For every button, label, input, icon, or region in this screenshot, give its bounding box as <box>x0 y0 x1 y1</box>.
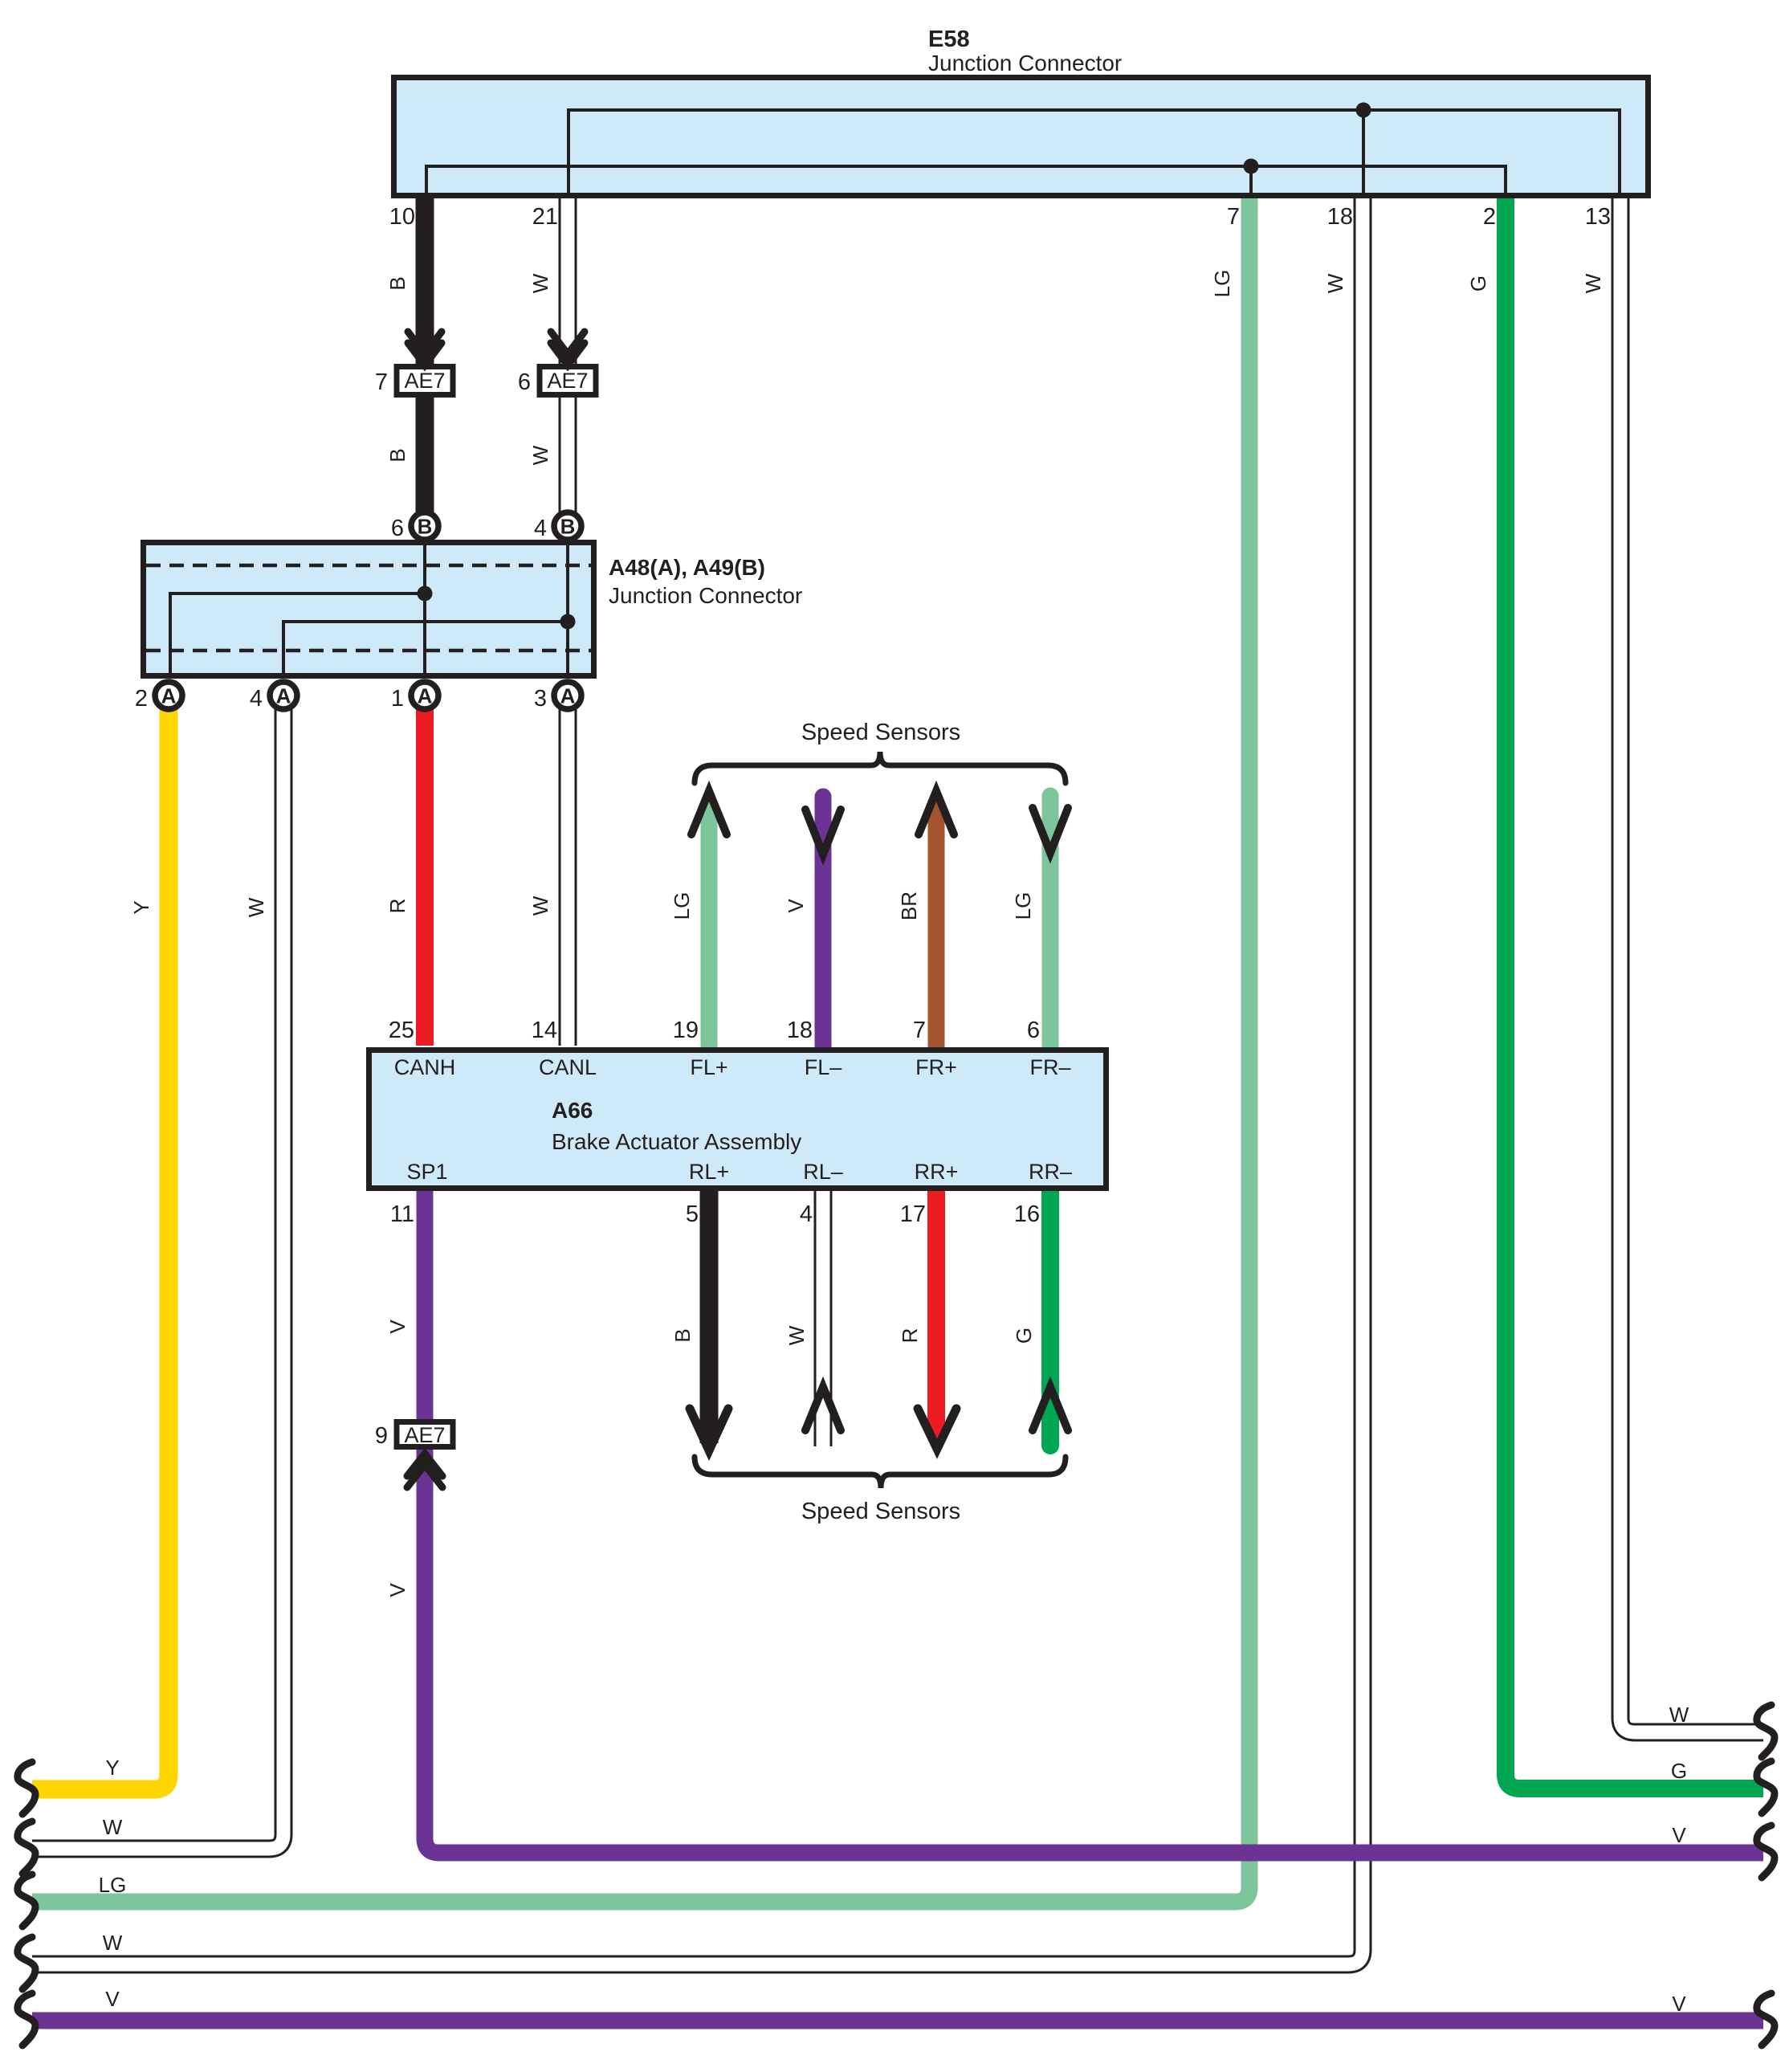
svg-text:W: W <box>528 273 552 293</box>
svg-text:7: 7 <box>1227 204 1240 230</box>
svg-text:FL–: FL– <box>805 1055 842 1079</box>
svg-text:Junction Connector: Junction Connector <box>609 583 802 608</box>
svg-text:B: B <box>385 448 410 462</box>
svg-text:A: A <box>161 684 177 708</box>
svg-text:B: B <box>560 515 576 539</box>
svg-text:W: W <box>103 1931 123 1955</box>
svg-text:Y: Y <box>105 1756 119 1780</box>
svg-text:RR–: RR– <box>1029 1160 1072 1184</box>
svg-text:Speed Sensors: Speed Sensors <box>801 720 960 745</box>
svg-text:14: 14 <box>532 1018 557 1043</box>
svg-text:LG: LG <box>1011 892 1035 920</box>
svg-text:7: 7 <box>913 1018 926 1043</box>
svg-text:17: 17 <box>900 1201 926 1227</box>
svg-text:6: 6 <box>1027 1018 1040 1043</box>
svg-text:13: 13 <box>1585 204 1611 230</box>
svg-text:LG: LG <box>1210 270 1234 298</box>
svg-text:AE7: AE7 <box>404 1423 445 1447</box>
svg-text:W: W <box>1323 273 1347 293</box>
svg-text:V: V <box>385 1319 410 1334</box>
svg-text:A66: A66 <box>552 1098 593 1123</box>
svg-text:AE7: AE7 <box>404 369 445 393</box>
svg-text:SP1: SP1 <box>406 1160 447 1184</box>
svg-text:6: 6 <box>391 516 404 541</box>
svg-text:Junction Connector: Junction Connector <box>928 51 1122 75</box>
svg-text:Y: Y <box>129 900 153 914</box>
svg-text:R: R <box>898 1328 922 1344</box>
svg-text:B: B <box>418 515 433 539</box>
svg-text:FL+: FL+ <box>690 1055 727 1079</box>
svg-text:V: V <box>1672 1992 1686 2016</box>
svg-text:W: W <box>1581 273 1605 293</box>
svg-text:10: 10 <box>389 204 415 230</box>
svg-text:RL+: RL+ <box>689 1160 729 1184</box>
svg-text:W: W <box>244 897 268 917</box>
svg-text:W: W <box>528 445 552 465</box>
svg-text:4: 4 <box>800 1201 813 1227</box>
svg-text:2: 2 <box>1483 204 1496 230</box>
svg-text:7: 7 <box>375 369 388 395</box>
svg-text:18: 18 <box>787 1018 813 1043</box>
svg-text:RL–: RL– <box>803 1160 843 1184</box>
svg-text:FR–: FR– <box>1029 1055 1070 1079</box>
svg-text:6: 6 <box>518 369 531 395</box>
svg-text:B: B <box>670 1328 695 1342</box>
svg-text:CANH: CANH <box>394 1055 456 1079</box>
svg-text:4: 4 <box>534 516 547 541</box>
svg-text:LG: LG <box>670 892 694 920</box>
svg-text:16: 16 <box>1014 1201 1040 1227</box>
svg-text:1: 1 <box>391 686 404 712</box>
svg-text:A: A <box>276 684 291 708</box>
svg-text:21: 21 <box>532 204 558 230</box>
svg-text:V: V <box>385 1583 410 1597</box>
svg-text:W: W <box>1669 1703 1689 1727</box>
svg-text:V: V <box>105 1987 120 2011</box>
svg-text:5: 5 <box>686 1201 699 1227</box>
svg-text:19: 19 <box>673 1018 699 1043</box>
svg-text:A: A <box>418 684 433 708</box>
svg-text:2: 2 <box>135 686 148 712</box>
svg-text:RR+: RR+ <box>915 1160 959 1184</box>
svg-text:Brake Actuator Assembly: Brake Actuator Assembly <box>552 1129 801 1154</box>
svg-text:E58: E58 <box>928 27 970 52</box>
svg-text:G: G <box>1012 1328 1036 1344</box>
svg-text:V: V <box>1672 1823 1686 1847</box>
svg-text:G: G <box>1671 1759 1687 1783</box>
svg-text:BR: BR <box>897 891 921 920</box>
svg-text:R: R <box>385 899 410 914</box>
svg-text:11: 11 <box>390 1201 414 1227</box>
svg-text:Speed Sensors: Speed Sensors <box>801 1499 960 1524</box>
svg-text:LG: LG <box>99 1873 127 1897</box>
svg-text:B: B <box>385 276 410 290</box>
svg-text:W: W <box>528 895 552 916</box>
svg-text:4: 4 <box>250 686 263 712</box>
svg-text:18: 18 <box>1327 204 1353 230</box>
svg-text:25: 25 <box>389 1018 414 1043</box>
svg-text:W: W <box>784 1325 809 1345</box>
svg-text:3: 3 <box>534 686 547 712</box>
svg-text:A48(A), A49(B): A48(A), A49(B) <box>609 555 765 580</box>
svg-text:A: A <box>560 684 576 708</box>
svg-text:V: V <box>784 899 808 913</box>
svg-text:W: W <box>103 1815 123 1839</box>
svg-text:CANL: CANL <box>539 1055 597 1079</box>
svg-text:9: 9 <box>375 1423 388 1449</box>
svg-text:AE7: AE7 <box>547 369 588 393</box>
svg-text:FR+: FR+ <box>915 1055 957 1079</box>
svg-text:G: G <box>1466 275 1490 292</box>
